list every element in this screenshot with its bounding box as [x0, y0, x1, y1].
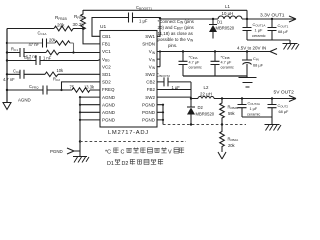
svg-text:*C: *C: [105, 150, 111, 156]
resistor RFB1A: [81, 10, 86, 30]
svg-text:SD1: SD1: [102, 72, 111, 77]
capacitor COUT1: [268, 19, 277, 40]
svg-text:4.7 µF: 4.7 µF: [221, 61, 233, 65]
capacitor CBG: [36, 56, 40, 65]
svg-text:11,18) as close as: 11,18) as close as: [158, 31, 194, 36]
svg-text:L1: L1: [225, 4, 230, 9]
wire out2 gnd rail 3: [242, 117, 272, 124]
wire SW1 pin riser: [157, 18, 160, 37]
caption line 1: [105, 148, 184, 156]
ground G2: [239, 78, 257, 88]
resistor RFB2A 20k: [220, 125, 225, 153]
label IC left pins: [102, 34, 116, 123]
svg-text:*CINA: *CINA: [189, 56, 198, 61]
svg-text:COUT1: COUT1: [278, 23, 289, 29]
wire VBG branch: [7, 60, 100, 61]
node OUT2 taps: [221, 97, 223, 99]
svg-text:*CINB: *CINB: [221, 56, 230, 61]
wire FB1 to pin: [83, 29, 100, 44]
svg-text:VC1: VC1: [102, 49, 111, 54]
wire CBOOST1 to SW1 node: [133, 17, 161, 19]
svg-text:SD2: SD2: [102, 80, 111, 85]
svg-text:20k: 20k: [49, 38, 57, 43]
svg-text:1 µF: 1 µF: [250, 107, 258, 111]
capacitor COUT2A: [238, 99, 247, 118]
svg-text:PGND: PGND: [142, 118, 156, 123]
svg-text:VBG: VBG: [102, 57, 110, 63]
capacitor COUT1A: [243, 19, 252, 40]
wire FB2/PGND riser dashed net: [157, 97, 191, 124]
node rail taps left: [6, 42, 8, 44]
arrow OUT2 terminal: [289, 96, 296, 102]
svg-text:V: V: [168, 150, 172, 156]
svg-text:22 µH: 22 µH: [200, 91, 212, 96]
wire VOUT1 sense top: [83, 10, 247, 19]
svg-text:CFRQ: CFRQ: [29, 84, 39, 90]
svg-text:pins.: pins.: [168, 43, 177, 48]
arrow RFB2A to gnd: [218, 152, 226, 159]
svg-text:PGND: PGND: [50, 149, 63, 154]
capacitor CIN 68uF: [242, 52, 252, 77]
wire dashed PGND net lower: [80, 141, 186, 143]
svg-text:AGND: AGND: [102, 102, 116, 107]
wire FB1 top branch: [7, 28, 83, 30]
svg-text:D1: D1: [217, 20, 223, 25]
svg-text:VIN: VIN: [149, 64, 156, 70]
svg-text:AGND: AGND: [102, 110, 116, 115]
svg-text:RC1: RC1: [11, 47, 18, 53]
arrow OUT1 terminal: [289, 16, 296, 22]
wire VIN rail: [157, 51, 270, 53]
svg-text:59k: 59k: [228, 111, 236, 116]
svg-text:10k: 10k: [57, 68, 65, 73]
svg-text:VIN: VIN: [149, 49, 156, 55]
svg-text:SW2: SW2: [145, 72, 155, 77]
svg-text:VIN: VIN: [149, 57, 156, 63]
svg-text:ceramic: ceramic: [189, 66, 202, 70]
node PGND: [79, 140, 81, 142]
node SW1: [159, 17, 161, 19]
wire SW1 node to L1: [160, 18, 218, 20]
node FB1: [82, 27, 84, 29]
svg-text:CB1: CB1: [102, 34, 111, 39]
svg-text:*Connect CIN (pins: *Connect CIN (pins: [158, 19, 195, 25]
svg-text:PGND: PGND: [142, 102, 156, 107]
inductor L1: [218, 16, 242, 19]
resistor RFB2B 59k: [220, 99, 225, 125]
svg-text:CBG: CBG: [24, 55, 32, 61]
caption line 2: [107, 159, 163, 167]
svg-text:C: C: [121, 150, 125, 156]
resistor RFRQ 13.3k: [72, 88, 90, 93]
capacitor CBOOT2: [164, 77, 168, 86]
svg-text:PGND: PGND: [142, 110, 156, 115]
svg-text:47 nF: 47 nF: [29, 42, 40, 47]
svg-text:AGND: AGND: [18, 98, 31, 103]
wire left rail: [6, 29, 8, 103]
svg-text:PGND: PGND: [102, 118, 116, 123]
capacitor CINB ceramic: [211, 52, 220, 77]
svg-text:FB2: FB2: [147, 87, 156, 92]
svg-text:D2: D2: [122, 161, 129, 167]
svg-text:CB2: CB2: [146, 80, 155, 85]
wire CB1 to CBOOST1: [92, 18, 129, 37]
wire output gnd rail 1: [247, 40, 290, 43]
resistor RFB1B: [54, 26, 73, 31]
svg-text:4.7 µF: 4.7 µF: [189, 61, 201, 65]
capacitor CFRQ: [43, 86, 47, 95]
capacitor CC1: [20, 48, 24, 57]
svg-text:RFB1B: RFB1B: [55, 15, 68, 21]
ground AGND triangle: [3, 103, 11, 110]
svg-text:1 µF: 1 µF: [139, 19, 148, 24]
svg-text:SHDN: SHDN: [142, 42, 155, 47]
node SW2 L2 tap: [190, 97, 192, 99]
svg-text:1 nF: 1 nF: [43, 55, 52, 60]
capacitor CC2: [20, 70, 24, 79]
resistor RC2: [45, 72, 58, 77]
svg-text:D2: D2: [198, 105, 204, 110]
svg-text:68 µF: 68 µF: [278, 29, 289, 34]
capacitor COUT2: [268, 99, 277, 118]
arrow PGND terminal: [67, 148, 80, 154]
wire cin gnd rail 2: [183, 76, 247, 78]
svg-text:20k: 20k: [228, 143, 236, 148]
ground G3: [265, 125, 282, 131]
ground G4 PGND: [73, 157, 89, 163]
svg-text:FREQ: FREQ: [102, 87, 115, 92]
inductor L2: [198, 97, 214, 99]
wire CC1A branch: [7, 43, 74, 53]
svg-text:COUT2A: COUT2A: [248, 102, 260, 107]
wire VC2 branch: [7, 73, 100, 75]
svg-text:75: 75: [70, 85, 75, 90]
svg-text:CIN: CIN: [253, 56, 259, 62]
svg-text:SW1: SW1: [145, 34, 155, 39]
diode D2 MBR0520: [187, 106, 195, 108]
svg-text:CBOOST1: CBOOST1: [136, 5, 152, 11]
wire L2 to OUT2: [191, 98, 296, 100]
wire L1 to OUT1: [242, 18, 296, 20]
svg-text:1 µF: 1 µF: [255, 28, 263, 33]
wire FREQ branch: [7, 89, 100, 91]
wire AGND pins collector: [80, 97, 100, 156]
svg-text:U1: U1: [100, 24, 106, 30]
svg-text:possible to the VIN: possible to the VIN: [158, 37, 194, 43]
svg-text:ceramic: ceramic: [221, 66, 234, 70]
svg-text:68 µF: 68 µF: [253, 63, 264, 68]
svg-text:1 µF: 1 µF: [172, 85, 181, 90]
svg-text:5V OUT2: 5V OUT2: [274, 90, 295, 96]
ground G1: [283, 44, 300, 50]
svg-text:MBR0520: MBR0520: [196, 112, 215, 117]
svg-text:COUT2: COUT2: [278, 104, 289, 109]
capacitor CINA ceramic: [179, 52, 188, 77]
wire SW2 riser: [190, 82, 192, 107]
resistor RC1: [46, 50, 59, 55]
wire SD2 jog: [62, 82, 101, 90]
svg-text:L2: L2: [204, 85, 209, 90]
wire CB2 row: [157, 81, 191, 83]
svg-text:AGND: AGND: [102, 95, 116, 100]
svg-text:20) and CBST (pins: 20) and CBST (pins: [158, 25, 195, 31]
svg-text:RFB1A: RFB1A: [74, 14, 87, 20]
diode D1 MBR0520: [209, 19, 217, 25]
svg-text:13.3k: 13.3k: [84, 85, 95, 90]
label IC right pins: [142, 34, 156, 123]
svg-text:3.3V OUT1: 3.3V OUT1: [260, 13, 285, 19]
node VOUT1 caps: [246, 18, 248, 20]
svg-text:CC2: CC2: [13, 68, 20, 74]
capacitor CC1A 47nF: [43, 39, 47, 48]
svg-text:MBR0520: MBR0520: [216, 26, 235, 31]
svg-text:RC2: RC2: [53, 77, 60, 83]
op-amp U1 LM2717-ADJ IC body: [100, 31, 157, 128]
svg-text:30.2k: 30.2k: [73, 22, 85, 27]
svg-text:CC1A: CC1A: [38, 31, 48, 37]
svg-text:10 µH: 10 µH: [222, 11, 234, 16]
wire dashed PGND net upper: [163, 124, 246, 126]
svg-text:ceramic: ceramic: [252, 33, 266, 38]
arrow VIN terminal: [270, 49, 277, 55]
node CIN taps: [182, 50, 184, 52]
svg-text:CBOOT2: CBOOT2: [157, 73, 171, 79]
svg-text:ceramic: ceramic: [247, 113, 260, 117]
svg-text:VC2: VC2: [102, 64, 111, 69]
node D1 cathode: [212, 18, 214, 20]
svg-text:FB1: FB1: [102, 42, 111, 47]
svg-text:4.5V to 20V IN: 4.5V to 20V IN: [237, 46, 266, 51]
svg-text:RFB2A: RFB2A: [228, 137, 240, 143]
svg-text:20k: 20k: [57, 23, 65, 28]
svg-text:LM2717-ADJ: LM2717-ADJ: [108, 130, 149, 136]
svg-text:4.7 nF: 4.7 nF: [3, 77, 15, 82]
svg-text:68 µF: 68 µF: [279, 110, 289, 114]
wire VIN riser: [157, 52, 160, 67]
wire VC1 branch: [7, 52, 100, 54]
wire SW2 row8: [157, 89, 191, 91]
svg-text:RFB2B: RFB2B: [228, 105, 239, 111]
node CC1A join: [72, 51, 74, 53]
svg-text:D1: D1: [107, 161, 114, 167]
svg-text:SW2: SW2: [145, 95, 155, 100]
capacitor CBOOST1: [129, 13, 133, 23]
